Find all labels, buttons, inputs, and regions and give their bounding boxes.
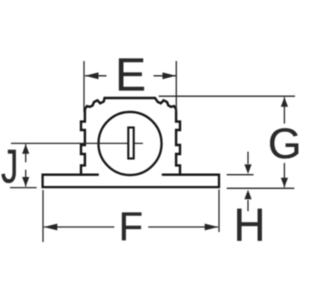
part: mounting base plate (43, 175, 219, 187)
svg-text:E: E (115, 49, 146, 101)
screw slot (128, 128, 133, 159)
svg-text:F: F (119, 205, 143, 249)
part: castellated clamp boss outline (81, 98, 180, 176)
svg-text:J: J (1, 139, 18, 193)
svg-text:G: G (268, 120, 300, 168)
dimension E: extension lines, dimension line, arrows (84, 61, 176, 112)
centerline through hub (11, 142, 143, 144)
part: circular hub face (98, 112, 161, 175)
dimension F: extension lines, dimension line, arrows (43, 190, 219, 243)
svg-text:H: H (234, 199, 266, 251)
dimension G: reference lines, dimension line, arrows (159, 96, 295, 188)
dimension J: reference line, arrows (10, 144, 37, 187)
dimension H: reference lines, arrows (227, 152, 254, 212)
